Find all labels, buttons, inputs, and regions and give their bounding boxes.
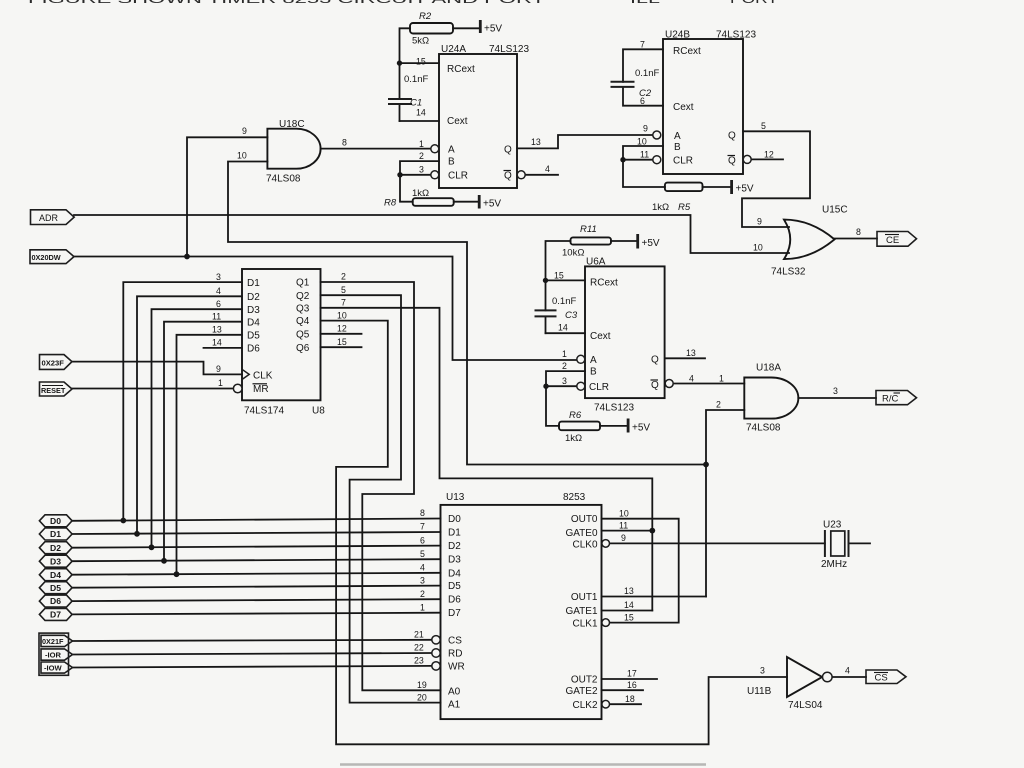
svg-text:RESET: RESET [41, 386, 66, 395]
svg-text:0.1nF: 0.1nF [635, 68, 659, 79]
flag D1 [39, 528, 72, 540]
flag D2 [39, 542, 72, 554]
wire R5 right lead to +5V [703, 186, 732, 188]
junction 0X20DW / U18C pin9 [184, 254, 190, 260]
wire U24A pin 14 [400, 120, 440, 122]
bubble U24B pin Qbar [743, 155, 751, 163]
wire U8 Q4 pin 10 to U11B input [321, 321, 788, 745]
bubble U13 pin CLK2 [602, 700, 610, 708]
wire U8 D1 pin 3 tap from D0 bus [123, 282, 242, 520]
svg-text:Q4: Q4 [296, 316, 310, 327]
junction U24A pin15/R2/C1 [397, 60, 402, 65]
bubble U6A pin CLR [577, 382, 585, 390]
svg-text:D1: D1 [247, 278, 260, 289]
wire U8 D4 pin 11 tap from D3 bus [164, 322, 242, 561]
svg-text:7: 7 [341, 298, 346, 308]
svg-text:13: 13 [624, 586, 634, 596]
junction U6A pin15/R11/C3 [543, 278, 548, 283]
svg-text:3: 3 [833, 386, 838, 396]
junction D3 bus tap [161, 558, 167, 564]
svg-text:10: 10 [337, 310, 347, 320]
svg-text:74LS04: 74LS04 [788, 700, 823, 711]
resistor R6 1k body [559, 422, 600, 431]
svg-text:20: 20 [417, 692, 427, 702]
svg-text:74LS32: 74LS32 [771, 267, 806, 278]
svg-text:-IOW: -IOW [44, 663, 63, 672]
flag D6 [39, 595, 72, 607]
svg-text:U13: U13 [446, 492, 465, 503]
wire 0X20DW net to U6A pin A [74, 257, 578, 361]
svg-text:16: 16 [627, 680, 637, 690]
bubble U13 pin CLK0 [602, 540, 610, 548]
wire D7 bus line [72, 613, 441, 615]
svg-text:D6: D6 [50, 596, 61, 606]
svg-text:C1: C1 [410, 98, 422, 109]
bubble U13 pin CLK1 [602, 619, 610, 627]
svg-text:23: 23 [414, 656, 424, 666]
flag 0X20DW [30, 250, 74, 264]
wire 8253 OUT2 pin 17 stub [602, 678, 658, 680]
svg-text:-IOR: -IOR [45, 650, 62, 659]
svg-text:CLK0: CLK0 [572, 540, 597, 551]
svg-text:2MHz: 2MHz [821, 559, 847, 570]
svg-text:CS: CS [448, 636, 462, 647]
svg-text:D7: D7 [50, 610, 61, 620]
svg-text:U23: U23 [823, 520, 842, 531]
svg-text:10: 10 [619, 508, 629, 518]
svg-text:R5: R5 [678, 202, 691, 213]
wire U8 Q3 pin 7 to 8253 GATE0 and GATE1 [321, 308, 653, 611]
crystal U23 body [831, 531, 845, 556]
svg-text:21: 21 [414, 630, 424, 640]
bubble U8 pin MR [233, 384, 242, 393]
svg-text:3: 3 [420, 575, 425, 585]
svg-text:Q: Q [728, 156, 736, 167]
svg-text:13: 13 [686, 348, 696, 358]
wire D6 bus line [72, 599, 441, 601]
clock triangle U8 CLK pin [242, 369, 249, 379]
flag D3 [39, 555, 72, 567]
flag D5 [39, 582, 72, 594]
svg-text:1: 1 [419, 139, 424, 149]
svg-text:2: 2 [341, 272, 346, 282]
svg-text:C3: C3 [565, 310, 578, 321]
svg-text:RCext: RCext [673, 46, 701, 57]
svg-text:74LS174: 74LS174 [244, 406, 284, 417]
wire 8253 CLK2 pin 18 stub [610, 703, 641, 705]
svg-text:6: 6 [420, 535, 425, 545]
svg-text:OUT2: OUT2 [571, 675, 598, 686]
svg-text:2: 2 [419, 151, 424, 161]
flag -IOW [41, 662, 73, 673]
+5V bar at R11 [636, 234, 639, 249]
wire U24A pin CLR to B/R8 junction [400, 174, 431, 176]
svg-text:8: 8 [342, 138, 347, 148]
svg-text:RD: RD [448, 649, 462, 660]
wire 0X23F net to U8 CLK pin 9 [72, 362, 242, 375]
bubble U24A pin A [431, 145, 439, 153]
svg-text:RCext: RCext [590, 278, 618, 289]
svg-text:GATE1: GATE1 [565, 606, 597, 617]
+5V bar at R5 [730, 180, 733, 194]
faint scan line at bottom [340, 763, 706, 765]
svg-text:GATE2: GATE2 [565, 686, 597, 697]
svg-text:U11B: U11B [747, 686, 772, 697]
wire 8253 GATE0 pin 11 [602, 530, 653, 532]
svg-text:12: 12 [764, 150, 774, 160]
wire U24A Qbar pin 4 stub [525, 174, 558, 176]
gate U15C OR 74LS32 [784, 220, 835, 260]
svg-text:0X20DW: 0X20DW [32, 253, 61, 262]
svg-text:A: A [448, 145, 455, 156]
svg-text:FIGURE SHOWN TIMER 8253 CIRCUI: FIGURE SHOWN TIMER 8253 CIRCUIT AND PORT [28, 0, 546, 6]
svg-text:D0: D0 [448, 514, 461, 525]
svg-text:Q: Q [504, 171, 512, 182]
IC U13 8253 body [441, 505, 602, 719]
wire 8253 GATE1 pin 14 [602, 610, 653, 612]
svg-text:+5V: +5V [642, 238, 660, 249]
svg-text:+5V: +5V [736, 184, 754, 195]
svg-text:0X23F: 0X23F [42, 358, 65, 367]
junction D4 bus tap [174, 571, 180, 577]
wire U24B Q pin 5 to U15C input 9 [742, 131, 810, 227]
svg-text:D2: D2 [247, 292, 260, 303]
svg-text:1kΩ: 1kΩ [565, 433, 582, 444]
svg-text:Cext: Cext [590, 331, 611, 342]
svg-text:CLK: CLK [253, 370, 273, 381]
wire R2 left lead to U24A pin 15 and C1 and pin 14 [400, 28, 411, 99]
svg-text:10: 10 [237, 151, 247, 161]
svg-text:5: 5 [341, 285, 346, 295]
svg-text:B: B [590, 367, 597, 378]
svg-text:17: 17 [627, 669, 637, 679]
wire U6A pin 14 [546, 332, 586, 334]
flag CE [877, 232, 917, 247]
svg-text:1: 1 [218, 378, 223, 388]
bubble U13 pin RD [432, 649, 440, 657]
bubble U6A pin Qbar [665, 380, 673, 388]
svg-text:ADR: ADR [39, 213, 59, 223]
crystal U23 plates [824, 530, 826, 557]
wire U24B pin 7 to C2 to pin 6 [623, 49, 663, 82]
junction U24A CLR/B [397, 172, 402, 177]
svg-text:CS: CS [875, 673, 888, 684]
svg-text:B: B [448, 157, 455, 168]
capacitor C2 plates [611, 81, 635, 83]
svg-text:9: 9 [621, 533, 626, 543]
bubble U24B pin A [653, 131, 661, 139]
wire U24A pin B to R8 [400, 161, 439, 202]
svg-text:15: 15 [337, 337, 347, 347]
svg-text:Q3: Q3 [296, 303, 310, 314]
flag D7 [39, 608, 72, 620]
svg-text:8253: 8253 [563, 492, 586, 503]
svg-text:0X21F: 0X21F [42, 637, 64, 646]
flag D4 [39, 569, 72, 581]
svg-text:1: 1 [420, 602, 425, 612]
svg-text:5kΩ: 5kΩ [412, 36, 429, 47]
wire U8 Q2 pin 5 to 8253 A1 pin 20 [321, 295, 441, 702]
wire 8253 CLK0 pin 9 to crystal U23 [610, 542, 825, 544]
flag CS [866, 670, 906, 684]
svg-text:74LS123: 74LS123 [489, 44, 529, 55]
svg-text:U18C: U18C [279, 119, 305, 130]
flag RESET [40, 382, 73, 396]
wire U8 Q5 pin 12 stub [321, 333, 362, 335]
svg-text:4: 4 [545, 164, 550, 174]
+5V bar at R6 [627, 419, 630, 433]
wire U8 D2 pin 4 tap from D1 bus [137, 296, 242, 533]
wire U18C output 8 to U24A pin A [321, 148, 431, 150]
svg-text:3: 3 [562, 376, 567, 386]
svg-text:1kΩ: 1kΩ [652, 202, 669, 213]
wire U18A output 3 to R/C flag [798, 397, 876, 399]
gate U18C AND 74LS08 [267, 129, 320, 169]
svg-text:10: 10 [637, 137, 647, 147]
svg-text:11: 11 [212, 311, 221, 321]
svg-text:4: 4 [420, 563, 425, 573]
svg-text:R8: R8 [384, 198, 397, 209]
svg-text:13: 13 [212, 325, 222, 335]
svg-text:22: 22 [414, 643, 424, 653]
svg-text:Q5: Q5 [296, 329, 310, 340]
wire D2 bus line [72, 546, 441, 548]
svg-text:C2: C2 [639, 88, 652, 99]
svg-text:Q: Q [504, 145, 512, 156]
svg-text:D5: D5 [50, 583, 61, 593]
svg-text:Cext: Cext [447, 116, 468, 127]
svg-text:Q1: Q1 [296, 278, 310, 289]
svg-text:A0: A0 [448, 687, 461, 698]
svg-text:9: 9 [216, 364, 221, 374]
svg-text:14: 14 [416, 108, 426, 118]
wire U8 D6 pin 14 stub [204, 347, 243, 349]
svg-text:15: 15 [624, 612, 634, 622]
wire crystal U23 right lead [849, 542, 871, 544]
svg-text:19: 19 [417, 680, 427, 690]
svg-text:9: 9 [242, 126, 247, 136]
junction OUT1 / U18C pin10 net [703, 462, 709, 468]
resistor R2 5k body [410, 23, 453, 34]
svg-text:CLR: CLR [448, 171, 468, 182]
wire U6A pin 15 [546, 279, 586, 281]
wire D5 bus line [72, 586, 441, 588]
svg-text:PORT: PORT [730, 0, 779, 6]
resistor R11 10k body [571, 237, 612, 244]
svg-text:5: 5 [761, 121, 766, 131]
svg-text:13: 13 [531, 137, 541, 147]
svg-text:3: 3 [760, 666, 765, 676]
wire U6A Q pin 13 stub [665, 357, 705, 359]
svg-text:14: 14 [624, 600, 634, 610]
gate U11B inverter 74LS04 [787, 657, 822, 697]
wire U24B pin CLR to B/R5 junction [623, 159, 653, 161]
svg-text:1: 1 [719, 374, 724, 384]
svg-text:OUT0: OUT0 [571, 514, 598, 525]
+5V bar at R2 [479, 20, 482, 33]
svg-text:CLR: CLR [589, 382, 609, 393]
capacitor C1 plates [388, 98, 412, 100]
wire U24A pin 15 [400, 62, 440, 64]
svg-text:Cext: Cext [673, 102, 694, 113]
svg-text:10kΩ: 10kΩ [562, 248, 584, 259]
svg-text:D2: D2 [50, 543, 61, 553]
svg-text:10: 10 [753, 243, 763, 253]
wire U6A pin CLR to B/R6 junction [546, 385, 577, 387]
wire U24A Q pin 13 to U24B pin A [517, 135, 653, 148]
svg-text:9: 9 [643, 124, 648, 134]
svg-text:74LS123: 74LS123 [594, 403, 634, 414]
svg-text:0.1nF: 0.1nF [552, 296, 576, 307]
svg-text:+5V: +5V [483, 199, 501, 210]
svg-text:CLR: CLR [673, 156, 693, 167]
wire RESET net to U8 MR pin 1 [72, 388, 234, 390]
svg-text:OUT1: OUT1 [571, 592, 598, 603]
wire R6 right lead to +5V [600, 425, 628, 427]
svg-text:2: 2 [716, 400, 721, 410]
wire U8 D3 pin 6 tap from D2 bus [152, 309, 243, 547]
svg-text:Q6: Q6 [296, 343, 310, 354]
svg-text:D0: D0 [50, 516, 61, 526]
svg-text:+5V: +5V [484, 24, 502, 35]
wire U24B Qbar pin 12 stub [751, 158, 783, 160]
svg-text:2: 2 [420, 589, 425, 599]
svg-text:B: B [674, 142, 681, 153]
svg-text:7: 7 [420, 522, 425, 532]
svg-text:1: 1 [562, 349, 567, 359]
wire D4 bus line [72, 573, 441, 575]
svg-text:Q: Q [728, 131, 736, 142]
svg-text:0.1nF: 0.1nF [404, 74, 428, 85]
svg-text:U6A: U6A [586, 257, 606, 268]
wire U18C input 10 from OUT1 net [228, 162, 706, 465]
svg-text:CE: CE [886, 235, 899, 246]
wire 8253 OUT0 pin 10 to CLK1 pin 15 [602, 519, 679, 623]
svg-text:D4: D4 [50, 570, 61, 580]
svg-text:8: 8 [856, 227, 861, 237]
svg-text:Q2: Q2 [296, 291, 310, 302]
junction U24B CLR/B [620, 157, 625, 162]
flag R/C [876, 391, 917, 405]
bubble U24A pin Qbar [517, 171, 525, 179]
svg-text:14: 14 [558, 323, 568, 333]
svg-text:D4: D4 [448, 568, 461, 579]
svg-text:D3: D3 [247, 305, 260, 316]
flag D0 [39, 515, 72, 527]
svg-text:D4: D4 [247, 317, 260, 328]
wire 0X21F net to 8253 CS pin 21 [73, 640, 432, 641]
wire 8253 GATE2 pin 16 stub [602, 689, 644, 691]
wire U8 Q6 pin 15 stub [321, 346, 362, 348]
svg-text:CLK1: CLK1 [572, 618, 597, 629]
svg-text:6: 6 [216, 299, 221, 309]
resistor R5 1k body [665, 183, 703, 192]
flag -IOR [41, 649, 73, 660]
wire 8253 OUT1 pin 13 [602, 596, 707, 598]
svg-text:R6: R6 [569, 410, 582, 421]
capacitor C3 plates [535, 309, 557, 311]
bubble U13 pin CS [432, 636, 440, 644]
wire D1 bus line [72, 532, 441, 534]
svg-text:5: 5 [420, 549, 425, 559]
svg-text:A: A [590, 355, 597, 366]
svg-text:GATE0: GATE0 [565, 528, 597, 539]
svg-text:74LS08: 74LS08 [266, 174, 301, 185]
flag ADR [31, 210, 75, 225]
svg-text:U18A: U18A [756, 363, 781, 374]
resistor R8 1k body [413, 198, 454, 206]
svg-text:CLK2: CLK2 [572, 700, 597, 711]
svg-text:D5: D5 [247, 330, 260, 341]
junction U6A CLR/B [543, 384, 548, 389]
junction GATE0 / Q3 net [649, 528, 655, 534]
IC U8 74LS174 body [242, 269, 321, 400]
wire -IOW net to 8253 WR pin 23 [73, 666, 432, 668]
svg-text:R11: R11 [580, 224, 597, 235]
svg-text:D3: D3 [50, 556, 61, 566]
svg-text:18: 18 [625, 694, 635, 704]
svg-text:U8: U8 [312, 406, 325, 417]
svg-text:A1: A1 [448, 700, 461, 711]
svg-text:D5: D5 [448, 581, 461, 592]
svg-text:MR: MR [253, 384, 269, 395]
cropped text artifacts at top edge [28, 0, 779, 6]
svg-text:D1: D1 [50, 529, 61, 539]
svg-text:15: 15 [554, 271, 564, 281]
svg-text:RCext: RCext [447, 64, 475, 75]
svg-text:U24A: U24A [441, 44, 466, 55]
junction D2 bus tap [149, 544, 155, 550]
+5V bar at R8 [478, 195, 481, 209]
svg-text:WR: WR [448, 662, 465, 673]
box around 0X21F -IOR -IOW flags [39, 633, 69, 675]
wire R8 right lead to +5V [454, 201, 479, 203]
svg-text:11: 11 [619, 520, 628, 530]
wire -IOR net to 8253 RD pin 22 [73, 653, 432, 655]
bubble U6A pin A [577, 355, 585, 363]
svg-text:11: 11 [640, 150, 649, 160]
bubble U24A pin CLR [431, 171, 439, 179]
wire U8 D5 pin 13 tap from D4 bus [177, 335, 243, 574]
wire R2 right lead to +5V [453, 27, 480, 29]
svg-text:D6: D6 [247, 344, 260, 355]
wire U6A pin B to R6 [546, 371, 585, 426]
svg-text:+5V: +5V [632, 423, 650, 434]
svg-text:A: A [674, 131, 681, 142]
junction D0 bus tap [120, 518, 126, 524]
svg-text:4: 4 [689, 374, 694, 384]
svg-text:4: 4 [845, 666, 850, 676]
svg-text:D6: D6 [448, 595, 461, 606]
wire R11 right lead to +5V [611, 240, 637, 242]
svg-text:R/C: R/C [882, 393, 899, 404]
wire U8 Q1 pin 2 to 8253 A0 pin 19 [321, 282, 441, 690]
junction D1 bus tap [134, 531, 140, 537]
svg-text:3: 3 [216, 272, 221, 282]
IC U24B 74LS123 body [663, 39, 743, 174]
svg-text:Q: Q [651, 355, 659, 366]
bubble U13 pin WR [432, 662, 440, 670]
svg-text:12: 12 [337, 324, 347, 334]
svg-text:1kΩ: 1kΩ [412, 188, 429, 199]
svg-text:R2: R2 [419, 11, 432, 22]
svg-text:3: 3 [419, 165, 424, 175]
svg-text:9: 9 [757, 217, 762, 227]
bubble U11B output [823, 672, 833, 682]
flag 0X21F [41, 635, 73, 646]
svg-text:Q: Q [651, 380, 659, 391]
svg-text:14: 14 [212, 338, 222, 348]
